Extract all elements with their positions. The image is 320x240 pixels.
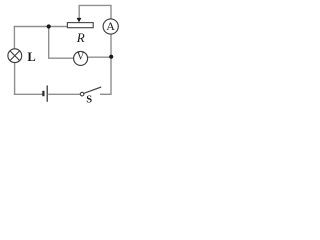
- wire: bottom horizontal from switch to right corner: [100, 93, 111, 95]
- node junction dot on right rail: [109, 55, 113, 59]
- wire: bottom horizontal from battery to switch: [48, 93, 80, 95]
- lamp L circle: [8, 49, 22, 63]
- lamp L cross: [10, 51, 20, 61]
- wire: bottom horizontal from left corner to battery: [14, 93, 43, 95]
- wire: rheostat slider bracket (up, over, down to ammeter): [79, 5, 111, 19]
- ammeter U=A circle: [103, 19, 118, 34]
- switch pivot circle: [80, 92, 84, 96]
- resistor slider arrowhead: [77, 18, 82, 23]
- wire: right vertical rail (bottom corner up to ammeter): [110, 34, 112, 95]
- voltmeter circle: [74, 51, 88, 65]
- svg-text:L: L: [27, 50, 35, 64]
- wire: voltmeter branch horizontal right segment: [87, 56, 111, 58]
- wire: left vertical rail (top corner to lamp): [13, 26, 15, 49]
- switch blade: [84, 87, 101, 93]
- wire: left vertical rail (lamp to bottom corner): [14, 62, 16, 94]
- background: [0, 0, 126, 108]
- svg-text:R: R: [76, 30, 85, 45]
- battery short thick plate: [42, 91, 44, 96]
- node junction dot on top wire: [47, 24, 51, 28]
- svg-text:V: V: [77, 52, 85, 63]
- svg-text:S: S: [86, 95, 92, 106]
- wire: voltmeter branch horizontal left segment: [48, 57, 74, 59]
- wire: top horizontal from left corner to rheostat: [14, 26, 68, 28]
- resistor R box: [67, 23, 93, 28]
- battery long thin plate: [46, 85, 48, 101]
- svg-text:A: A: [106, 19, 115, 33]
- wire: voltmeter branch vertical from top junction: [48, 27, 50, 59]
